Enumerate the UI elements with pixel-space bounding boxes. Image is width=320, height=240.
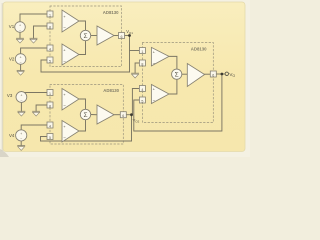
svg-text:−: −: [153, 98, 156, 103]
svg-text:−: −: [63, 59, 66, 64]
node VO1: [126, 29, 133, 37]
pin 8 U2: [47, 102, 53, 108]
voltage source V4: [9, 130, 27, 141]
svg-text:8: 8: [49, 104, 51, 108]
svg-text:−: −: [20, 137, 22, 141]
wire output buffer to pin 6: [114, 114, 120, 116]
svg-text:−: −: [63, 104, 66, 109]
wire node VO2 up to U3 pin 4: [132, 89, 140, 115]
node VO2: [130, 113, 140, 123]
op-amp U2 boundary box: [50, 85, 123, 145]
wire pin 6 to node VO1: [125, 35, 130, 37]
svg-text:V4: V4: [9, 133, 15, 138]
ground for U3 pin 8: [132, 73, 139, 78]
pin 1 U3: [139, 48, 145, 54]
svg-text:+: +: [20, 132, 22, 136]
voltage source V2: [9, 54, 26, 65]
svg-text:6: 6: [122, 114, 124, 118]
svg-text:V3: V3: [7, 93, 13, 98]
wire V1 to ground: [19, 32, 21, 38]
wire U1 feedback return to pin 5: [41, 60, 130, 72]
wire U1 gmB output to summing node: [79, 41, 86, 55]
output terminal VO: [225, 72, 235, 78]
svg-text:Σ: Σ: [83, 33, 87, 40]
voltage source V1: [9, 22, 26, 33]
svg-text:5: 5: [141, 99, 143, 103]
wire pin 8 to ground: [135, 63, 139, 73]
pin 1 U2: [47, 90, 53, 96]
wire U2 gmA output to summing node: [79, 99, 86, 109]
wire V1 to pin 1: [20, 14, 47, 22]
pin 8 U1: [47, 23, 53, 29]
wire U2 feedback return to pin 5: [41, 137, 132, 142]
pin 4 U2: [47, 122, 53, 128]
pin 5 U2: [47, 134, 53, 140]
wire V2 to ground: [20, 65, 22, 71]
op-amp U1 gm stage B: [62, 44, 79, 65]
svg-text:6: 6: [121, 35, 123, 39]
pin 6 U2: [120, 112, 126, 118]
summing node U3: [172, 69, 182, 79]
wire U3 gmB output to summing node: [169, 79, 177, 94]
svg-text:AD8130: AD8130: [191, 46, 207, 51]
ground for U2 pin 8: [33, 111, 40, 116]
svg-text:1: 1: [49, 13, 51, 17]
op-amp U3 gm stage B: [151, 85, 169, 104]
wire U3 gmA output to summing node: [169, 56, 177, 69]
wire V3 to ground: [20, 102, 22, 111]
pin 6 U3: [210, 71, 216, 77]
pin 1 U1: [47, 11, 53, 17]
node VO: [221, 73, 224, 76]
op-amp U1 output buffer: [97, 26, 114, 45]
svg-text:−: −: [63, 25, 66, 30]
pin 8 U3: [139, 60, 145, 66]
wire summing node to output buffer: [182, 73, 188, 75]
ground below V3: [18, 111, 25, 116]
svg-text:+: +: [20, 56, 22, 60]
svg-text:−: −: [63, 136, 66, 141]
pin 5 U3: [139, 97, 145, 103]
op-amp U3 boundary box: [142, 43, 213, 123]
wire V2 to pin 4: [21, 48, 47, 54]
wire V4 to pin 4: [21, 125, 47, 130]
op-amp U2 gm stage B: [62, 121, 79, 143]
svg-text:AD8130: AD8130: [103, 88, 119, 93]
svg-text:−: −: [19, 28, 21, 32]
summing node U2: [80, 109, 90, 119]
svg-text:V2: V2: [9, 57, 15, 62]
wire pin 8 to ground: [36, 105, 47, 111]
svg-text:8: 8: [49, 25, 51, 29]
pin 6 U1: [119, 33, 125, 39]
wire U1 gmA output to summing node: [79, 21, 86, 30]
wire V4 to ground: [20, 141, 22, 146]
wire node VO1 down to feedback run: [129, 36, 131, 73]
svg-text:AD8130: AD8130: [103, 10, 119, 15]
svg-text:4: 4: [49, 124, 51, 128]
wire pin 8 to ground: [34, 26, 48, 38]
op-amp U2 output buffer: [97, 105, 114, 124]
svg-text:−: −: [20, 98, 22, 102]
summing node U1: [80, 30, 90, 40]
ground below V1: [17, 38, 24, 43]
svg-text:Σ: Σ: [83, 112, 87, 119]
ground for U1 pin 8: [30, 38, 37, 43]
op-amp U3 gm stage A: [151, 47, 169, 66]
svg-text:1: 1: [141, 50, 143, 54]
svg-text:−: −: [20, 60, 22, 64]
op-amp U1 gm stage A: [62, 10, 79, 32]
pin 4 U1: [47, 45, 53, 51]
op-amp U3 output buffer: [187, 64, 204, 87]
svg-text:4: 4: [49, 47, 51, 51]
svg-text:4: 4: [141, 88, 143, 92]
svg-text:5: 5: [49, 59, 51, 63]
pin 4 U3: [139, 86, 145, 92]
voltage source V3: [7, 92, 27, 103]
op-amp U2 gm stage A: [62, 89, 79, 111]
wire branch VO1 to U3 pin 1: [130, 50, 140, 52]
wire V3 to pin 1: [21, 91, 47, 94]
wire U2 gmB output to summing node: [79, 120, 86, 131]
wire summing node to output buffer: [91, 114, 97, 116]
wire node VO2 down to feedback run: [131, 115, 133, 141]
svg-text:V1: V1: [9, 24, 15, 29]
op-amp U1 boundary box: [50, 6, 122, 67]
wire pin 6 to node VO: [216, 73, 225, 75]
wire output buffer to pin 6: [205, 73, 211, 75]
ground below V2: [17, 70, 24, 75]
pin 5 U1: [47, 57, 53, 63]
svg-text:8: 8: [141, 62, 143, 66]
svg-text:−: −: [153, 61, 156, 66]
svg-text:+: +: [20, 94, 22, 98]
wire U3 feedback return to pin 5: [134, 74, 222, 131]
svg-text:5: 5: [49, 136, 51, 140]
svg-text:6: 6: [212, 73, 214, 77]
svg-text:Σ: Σ: [175, 72, 179, 79]
page background: [0, 0, 250, 157]
wire summing node to output buffer: [91, 35, 97, 37]
svg-text:1: 1: [49, 92, 51, 96]
svg-text:+: +: [19, 24, 21, 28]
ground below V4: [18, 146, 25, 151]
wire pin 6 to node VO2: [126, 114, 131, 116]
wire output buffer to pin 6: [114, 35, 119, 37]
